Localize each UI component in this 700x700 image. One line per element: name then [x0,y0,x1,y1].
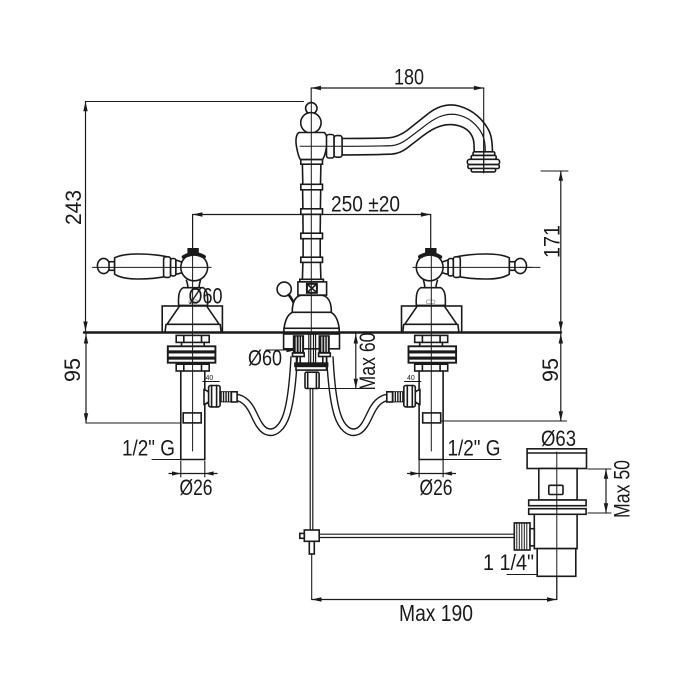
dimension Max 60 arrow top [354,334,358,344]
drain pivot wheel [514,523,530,550]
pop-up rod upper [310,389,313,531]
valve L hose nipple [220,392,231,402]
drain washer 1 [529,500,586,506]
spout outlet band 2 [468,165,499,169]
valve L neck [182,342,205,346]
hose left outer [236,357,294,433]
flange bar light [296,366,327,370]
column ring 3 [301,209,323,215]
dimension 171 extension line top [541,170,568,172]
dimension Max 50 arrows [604,469,608,479]
hose right inner [330,357,388,433]
valve L washer band 3 [168,359,216,363]
svg-text:Ø60: Ø60 [248,346,282,371]
dimension 95 right line [560,334,562,421]
threaded stud right slits [322,337,327,352]
threaded stud left [294,336,304,353]
dimension 250 +-20 line [193,215,431,251]
spout inner contour / centerline [344,114,485,151]
dimension O26 left line [169,473,217,475]
svg-text:243: 243 [61,190,86,225]
dimension Max 190 left extension [311,554,313,600]
svg-text:40: 40 [407,375,415,382]
rod left stub [300,533,305,538]
valve L hose collar [231,392,237,402]
dimension 95 right arrow top [559,334,563,344]
drain top flange [527,449,586,469]
finial small ball [306,103,317,114]
center body housing [284,334,340,349]
handle R horizontal centerline extension [520,266,540,268]
valve L thread undercut [183,413,201,423]
svg-text:250 ±20: 250 ±20 [331,192,400,217]
valve L washer band 1 [168,346,216,351]
label O60 center leader line [266,349,294,351]
handle L ball joint [181,254,208,281]
threaded stud left slits [296,337,301,352]
valve L centerline [192,334,194,451]
valve L bottom hex nut faces [184,364,202,371]
spout hub ring 2 [334,136,342,158]
handle L vertical centerline [192,252,194,331]
dimension 180 line [311,87,484,89]
svg-text:Max 60: Max 60 [355,333,380,391]
dimension 243 line [85,102,87,333]
center bell cap [292,295,331,312]
label O60 center leader arrow [287,348,296,352]
column section 5 [302,262,321,279]
handle L neck [186,280,200,287]
tiny dimension 40 right [404,381,421,383]
rod joint block [304,530,319,541]
column ring 1 [301,160,323,165]
dimension 243 extension line top [86,101,304,103]
cartridge screw square [307,284,317,293]
center bell plinth [284,328,339,332]
dimension 95 left extension line bottom [86,422,181,424]
rod nut faces [308,372,317,388]
handle L bell dome [178,288,207,306]
dimension 180 arrow right [474,86,484,90]
column collar [300,279,324,282]
svg-text:180: 180 [394,65,424,90]
label 1 1/4 leader line [507,574,537,576]
drain tailpiece [537,549,576,577]
label 1/2 G left leader line [152,459,201,461]
cartridge block [298,282,327,295]
handle L logo mark [189,300,198,304]
valve L hose nipple threads [222,393,230,401]
pop-up guide tubes [309,334,316,363]
horizontal rod [319,534,514,537]
valve L tube [181,371,205,460]
spout hub body [296,133,327,160]
dimension O26 right arrows [410,471,419,475]
dimension Max 60 arrow bottom [354,379,358,389]
drain washer 2 [529,509,586,515]
valve L connector hump [204,390,210,405]
spout outlet band [471,155,496,159]
handle L stub [109,262,115,271]
handle L taper [176,260,184,274]
dimension Max 60 line [355,334,357,389]
svg-text:Ø63: Ø63 [541,426,576,451]
pop-up lift rod [289,295,296,307]
spout outlet bulge [467,159,499,164]
flange bar dark [295,363,328,366]
dimension 180 extension line right / spout outlet centerline [483,88,485,173]
handle L cap nub [188,249,198,252]
dimension 243 arrow bottom [83,322,87,332]
tiny dimension 40 left [203,381,220,383]
handle L grip barrel [115,254,168,279]
svg-text:Max 50: Max 50 [610,460,635,518]
handle L horizontal centerline [93,266,212,268]
dimension 95 right arrow bottom [559,411,563,421]
column section 1 [302,164,321,184]
stud washer right [319,353,331,357]
valve L top hex nut faces [184,335,202,342]
svg-text:95: 95 [60,358,85,382]
svg-text:1/2" G: 1/2" G [448,436,501,461]
svg-text:Max 190: Max 190 [399,600,473,626]
dimension 180 extension line left [310,88,312,102]
column centerline [310,101,312,331]
dimension Max 190 arrows [312,597,322,601]
stud washer left [293,353,305,357]
pop-up lift knob [277,282,291,296]
dimension O26 right line [408,473,456,475]
dimension 171 arrow bottom [559,322,563,332]
deck / mounting surface line [84,331,561,333]
valve L connector nut faces [212,386,217,407]
drain top flange inner line [527,452,586,454]
svg-text:95: 95 [538,358,563,382]
spout outlet flare plate [473,152,495,156]
dimension 180 arrow left [311,86,321,90]
rod lower stub [309,541,314,554]
valve L bottom hex nut [176,364,209,371]
dimension 171 arrow top [559,171,563,181]
valve R assembly [387,334,456,460]
spout hub ring 1 [327,135,335,159]
valve L washer band 2 [168,353,216,358]
dimension Max 50 line [605,469,607,513]
dimension Max 190 line [312,599,557,601]
column section 4 [303,239,320,258]
column ring 4 [301,233,323,239]
valve L connector nut [209,386,221,407]
handle L collar ring 1 [164,257,171,278]
dimension O26 right extension lines [419,460,443,477]
label 1/2 G right leader line [442,459,501,461]
column section 2 [303,190,321,209]
handle L bell plinth [165,325,221,333]
svg-text:1 1/4": 1 1/4" [483,550,534,575]
svg-text:Ø26: Ø26 [180,475,213,500]
dimension 95 left line [85,334,87,423]
drain upper body [539,469,577,501]
center bell lower tier [284,312,339,328]
handle L square flange outline [162,306,222,333]
handle L cap band [184,254,204,257]
cartridge screw cross [308,284,317,292]
handle R assembly [402,249,532,333]
drain pivot wheel teeth [517,523,527,550]
column ring 5 [301,257,323,262]
handle L tip knob [97,258,109,273]
dimension O26 left arrows [172,471,181,475]
drain centerline [556,452,558,599]
svg-text:171: 171 [540,225,565,258]
dimension 250 arrow left [193,212,203,216]
column ring 2 [301,184,323,190]
svg-text:40: 40 [206,375,214,382]
dimension Max 60 extension line bottom [320,388,361,390]
dimension Max 50 extension lines [588,469,611,513]
svg-text:1/2" G: 1/2" G [122,436,175,461]
finial ball [301,113,321,133]
dimension 95 right extension line bottom [442,420,567,422]
handle L collar ring 2 [171,259,176,276]
drain overflow slot [549,485,563,494]
svg-text:Ø60: Ø60 [189,284,223,309]
hose left inner [236,357,294,433]
handle L bell skirt [167,306,219,325]
stud tails [297,357,327,364]
hose right outer [330,357,388,433]
spout outlet bottom band [471,169,495,172]
threaded stud right [319,336,329,353]
dimension 171 line [560,171,562,333]
dimension O26 left extension lines [181,461,205,477]
spout bottom edge [342,125,474,155]
column section 3 [303,214,321,233]
rod nut [305,372,319,388]
drain pivot stub [530,529,534,546]
dimension 95 left arrow bottom [84,413,88,423]
spout top edge [342,105,492,152]
dimension 95 left arrow top [84,334,88,344]
dimension 250 arrow right [421,212,431,216]
spout outlet centerline [483,130,485,173]
spout centerline [300,145,344,147]
dimension 243 arrow top [83,102,87,112]
valve L top hex nut [176,335,209,342]
drain lower body [534,514,577,548]
svg-text:Ø26: Ø26 [420,475,453,500]
dimension Max 190 right extension [556,577,558,600]
